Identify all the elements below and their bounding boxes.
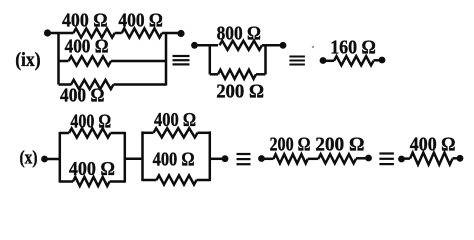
wire top branch left lead [48, 32, 74, 35]
wire final 400Ω left lead [402, 157, 411, 160]
wire box2 right rail [209, 131, 212, 181]
svg-text:(ix): (ix) [15, 50, 40, 71]
wire left rail [57, 32, 60, 85]
svg-text:(x): (x) [20, 148, 38, 169]
svg-text:400 Ω: 400 Ω [69, 158, 115, 180]
equivalence sign 1 [173, 55, 190, 66]
wire middle branch left lead [59, 60, 69, 63]
wire bottom branch left lead [59, 83, 72, 86]
resistor 400Ω (top-left) [73, 28, 114, 37]
resistor 400Ω (middle) [69, 56, 111, 65]
wire left rail of 800||200 [209, 44, 212, 74]
node A (left terminal of (ix) network) [44, 29, 51, 36]
svg-text:200 Ω: 200 Ω [315, 133, 364, 155]
wire 160Ω right lead [374, 59, 383, 62]
resistor 400Ω (final equivalent) [410, 153, 453, 165]
wire box1 top-left [60, 132, 69, 135]
svg-text:400 Ω: 400 Ω [153, 149, 195, 171]
wire between series resistors [308, 158, 319, 161]
wire bottom-left of 800||200 [210, 73, 218, 76]
resistor 200Ω (series right) [318, 154, 356, 163]
wire box2 bottom-right [197, 179, 210, 182]
node C (left terminal of 800||200) [191, 42, 198, 49]
wire box2 top-left [143, 132, 154, 135]
svg-text:400 Ω: 400 Ω [154, 109, 196, 131]
resistor 160Ω [334, 56, 374, 65]
wire box1 top-right [111, 132, 125, 135]
svg-text:400 Ω: 400 Ω [65, 36, 109, 58]
wire between top resistors [115, 32, 122, 35]
scan speck artifact [312, 46, 314, 48]
resistor 800Ω [220, 41, 263, 50]
wire series left lead [262, 158, 274, 161]
resistor 400Ω (bottom) [71, 80, 114, 89]
equivalence sign 3 [237, 153, 251, 165]
resistor 400Ω (top-right) [122, 28, 162, 37]
wire output lead [210, 158, 225, 161]
wire 800Ω to right rail [262, 44, 266, 47]
wire box2 bottom-left [143, 179, 157, 182]
wire 160Ω left lead [323, 60, 334, 63]
wire to 800||200 box [195, 44, 219, 47]
wire box1 bottom-right [110, 180, 125, 183]
node K (left terminal of final 400Ω) [398, 156, 405, 163]
svg-text:800 Ω: 800 Ω [217, 22, 261, 44]
wire box2 top-right [198, 132, 210, 135]
wire box2 left rail [141, 131, 144, 181]
node L (right terminal of final 400Ω) [457, 155, 464, 162]
svg-text:400 Ω: 400 Ω [118, 9, 162, 31]
wire final 400Ω right lead [453, 157, 461, 160]
svg-text:400 Ω: 400 Ω [62, 9, 108, 31]
node J (right terminal of series pair) [365, 155, 372, 162]
node I (left terminal of series pair) [258, 155, 265, 162]
wire box1 right rail [124, 132, 127, 183]
wire series right lead [356, 157, 369, 160]
node B (right terminal of (ix) network) [177, 30, 184, 37]
wire middle branch to right rail [111, 60, 166, 63]
node H (right terminal of (x) network) [222, 155, 229, 162]
wire right rail of 800||200 [264, 44, 267, 74]
svg-text:400 Ω: 400 Ω [410, 134, 456, 156]
svg-text:160 Ω: 160 Ω [330, 36, 376, 58]
resistor 200Ω [218, 70, 256, 79]
resistor 400Ω (box2 top) [154, 128, 198, 137]
wire between box1 and box2 [125, 158, 143, 161]
wire box1 left rail [59, 132, 62, 183]
wire 800||200 to right terminal [266, 44, 284, 47]
equivalence sign 4 [379, 152, 394, 165]
svg-text:400 Ω: 400 Ω [70, 111, 111, 133]
equivalence sign 2 [289, 56, 305, 66]
wire right rail [165, 32, 168, 86]
resistor 400Ω (box1 top) [69, 128, 111, 137]
svg-text:200 Ω: 200 Ω [216, 81, 264, 103]
resistor 400Ω (box2 bottom) [157, 175, 197, 184]
wire box1 bottom-left [60, 180, 73, 183]
node E (left terminal of 160Ω) [320, 57, 327, 64]
svg-text:400 Ω: 400 Ω [60, 85, 104, 107]
node D (right terminal of 800||200) [280, 42, 287, 49]
wire bottom branch to right rail [114, 83, 167, 86]
node G (left terminal of (x) network) [41, 156, 48, 163]
wire top branch right lead [162, 32, 181, 35]
wire bottom-right of 800||200 [256, 73, 266, 76]
svg-text:200 Ω: 200 Ω [270, 133, 311, 155]
resistor 400Ω (box1 bottom) [73, 177, 110, 186]
wire input lead [45, 158, 60, 161]
node F (right terminal of 160Ω) [379, 57, 386, 64]
resistor 200Ω (series left) [274, 154, 308, 163]
